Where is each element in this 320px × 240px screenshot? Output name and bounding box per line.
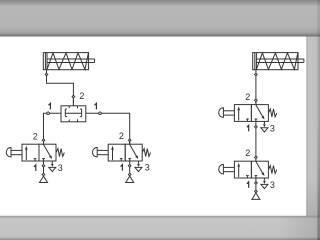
- node valve 2V2 port 1: [255, 182, 258, 185]
- wire valve 2V1 port 1 to valve 2V2 port 2: [255, 121, 257, 161]
- port label 1 (valve 1V2): [121, 165, 123, 171]
- right edge dark stripe: [317, 0, 320, 240]
- cylinder 1A1 (single-acting, spring return): [43, 53, 94, 70]
- exhaust port 3 of valve 1V1: [49, 161, 56, 172]
- wire shuttle valve port 1 left to valve 1V1 port 2: [44, 113, 62, 144]
- node valve 1V2 port 1: [128, 164, 131, 167]
- node supply 1V2: [128, 173, 131, 176]
- wire valve 2V2 port 1 to supply: [255, 178, 257, 193]
- svg-text:2: 2: [245, 148, 250, 158]
- valve 1V1 (3/2-way, pushbutton, spring return): [6, 144, 64, 161]
- svg-text:3: 3: [58, 163, 63, 173]
- node valve 1V2 port 2: [128, 139, 131, 142]
- svg-text:2: 2: [33, 131, 38, 141]
- svg-text:2: 2: [119, 131, 124, 141]
- node valve 1V1 port 1: [42, 164, 45, 167]
- svg-text:3: 3: [270, 123, 275, 133]
- port 2 stub valve 1V2: [129, 140, 131, 144]
- wire valve 1V2 port 1 to supply: [129, 161, 131, 176]
- port 2 stub valve 1V1: [43, 140, 45, 144]
- shuttle valve 1V3: [61, 97, 86, 122]
- cylinder 2A1 (single-acting, spring return): [253, 53, 304, 70]
- node valve 1V1 port 2: [42, 139, 45, 142]
- node shuttle valve port 2: [72, 95, 75, 98]
- exhaust port 3 of valve 1V2: [135, 161, 142, 172]
- compressed air supply of valve 2V2: [252, 193, 260, 199]
- wire cylinder 1A1 port to shuttle valve port 2: [47, 70, 74, 106]
- exhaust port 3 of valve 2V2: [261, 178, 268, 189]
- svg-text:3: 3: [145, 163, 150, 173]
- node shuttle valve port 1 right: [99, 112, 102, 115]
- port 2 stub valve 2V1: [255, 100, 257, 104]
- compressed air supply of valve 1V1: [40, 176, 48, 182]
- valve 2V1 (3/2-way, pushbutton, spring return): [219, 105, 277, 122]
- valve 2V2 (3/2-way, pushbutton, spring return): [219, 161, 277, 178]
- port label 1 (valve 2V1): [247, 125, 249, 131]
- node cylinder 1A1 port: [45, 73, 48, 76]
- node valve 2V1 port 1: [255, 126, 258, 129]
- wire cylinder 2A1 port to valve 2V1 port 2: [255, 70, 257, 105]
- right gray band: [306, 37, 320, 216]
- port label 1 (shuttle valve left): [49, 103, 51, 109]
- port label 1 (valve 2V2): [247, 182, 249, 188]
- exhaust port 3 of valve 2V1: [261, 121, 268, 132]
- wire shuttle valve port 1 right to valve 1V2 port 2: [86, 113, 130, 144]
- svg-text:2: 2: [79, 91, 84, 101]
- node valve 2V1 port 2: [255, 99, 258, 102]
- bottom gray band: [0, 216, 320, 240]
- compressed air supply of valve 1V2: [126, 176, 134, 182]
- port label 1 (valve 1V1): [34, 165, 36, 171]
- node cylinder 2A1 port: [255, 73, 258, 76]
- svg-text:3: 3: [270, 180, 275, 190]
- node supply 2V2: [255, 190, 258, 193]
- node supply 1V1: [42, 173, 45, 176]
- svg-text:2: 2: [245, 92, 250, 102]
- bottom-right corner shading: [278, 216, 320, 240]
- top gray band: [0, 0, 320, 37]
- port label 1 (shuttle valve right): [95, 103, 97, 109]
- valve 1V2 (3/2-way, pushbutton, spring return): [93, 144, 151, 161]
- wire valve 1V1 port 1 to supply: [43, 161, 45, 176]
- node valve 2V2 port 2: [255, 156, 258, 159]
- node shuttle valve port 1 left: [47, 112, 50, 115]
- white drawing sheet: [0, 37, 306, 216]
